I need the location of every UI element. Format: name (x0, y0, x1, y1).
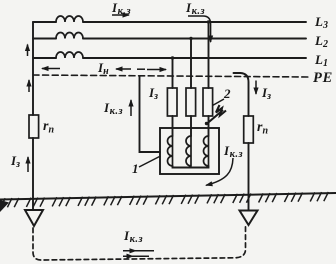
neutral vertical conductor (star point to earth) (32, 22, 34, 210)
pointer line of label 1 (139, 156, 161, 167)
earth electrode left (25, 210, 43, 226)
junction node fault point (205, 122, 208, 125)
svg-text:Iз: Iз (10, 153, 20, 170)
resistor r_п (neutral earthing) (29, 115, 39, 138)
motor winding coil phase C (204, 136, 209, 166)
breakdown-to-case fault arrow (207, 105, 227, 124)
current arrow I_н left (segment 1) (42, 68, 60, 70)
tap from L2 (phase wire to fuse F2) (190, 39, 192, 137)
svg-text:Iз: Iз (148, 85, 158, 102)
current arrow I_к.з through earth (lower) (123, 255, 149, 257)
svg-text:Iк.з: Iк.з (185, 0, 205, 17)
svg-text:Iк.з: Iк.з (123, 228, 143, 245)
tap from PE to repeated earthing (right) (234, 73, 249, 211)
phase line L2 (33, 38, 306, 40)
motor winding coil phase B (186, 136, 191, 166)
junction node L1/tap (171, 56, 174, 59)
current arrow I_з up neutral conductor (lower) (27, 157, 29, 172)
svg-text:2: 2 (223, 86, 231, 101)
junction node L2/tap (189, 37, 192, 40)
transformer winding coil on L2 (56, 33, 83, 39)
resistor r_п (repeated earthing) (244, 116, 254, 143)
earth electrode right (240, 211, 258, 226)
svg-text:L1: L1 (314, 52, 328, 69)
pointer line of label 2 (213, 99, 225, 106)
tap from L3 (phase wire to fuse F3) (208, 22, 210, 136)
star point bus of motor windings (173, 166, 209, 168)
tap from L1 (phase wire to fuse F1) (172, 58, 174, 136)
svg-text:1: 1 (132, 161, 139, 176)
wire PE drop to equipment case (140, 76, 161, 152)
equipment case (motor, item 1) (160, 128, 219, 174)
current arrow I_н left (segment 2) (116, 68, 131, 70)
current arrow I_з up neutral conductor (middle) (28, 80, 30, 92)
svg-text:PE: PE (313, 70, 333, 86)
junction node L3/tap (207, 20, 210, 23)
dash of I_н annotation (137, 68, 145, 70)
current arrow I_к.з along L3 (112, 14, 129, 16)
svg-text:Iз: Iз (261, 85, 271, 102)
left edge scan artifact (0, 200, 9, 212)
phase line L1 (33, 57, 306, 59)
current arrow I_к.з up the PE wire (130, 100, 132, 116)
ground surface line (0, 193, 336, 200)
svg-text:L3: L3 (314, 14, 328, 31)
dashed earth-return path between electrodes (33, 227, 246, 261)
svg-text:L2: L2 (314, 33, 328, 50)
ground hatching (1, 192, 329, 207)
transformer winding coil on L1 (56, 52, 83, 58)
svg-text:Iк.з: Iк.з (111, 0, 131, 17)
current arrow I_к.з through earth (upper) (123, 250, 154, 252)
svg-text:rп: rп (43, 119, 54, 136)
fuse F3 (203, 88, 213, 116)
fuse F1 (167, 88, 177, 116)
fuse F2 (186, 88, 196, 116)
transformer winding coil on L3 (56, 16, 83, 22)
PE / neutral protective conductor (dashed) (33, 75, 308, 77)
current arrow right toward equipment (147, 69, 166, 71)
svg-text:Iк.з: Iк.з (223, 143, 243, 160)
motor winding coil phase A (168, 136, 173, 166)
svg-text:Iн: Iн (97, 60, 109, 77)
current arrow I_к.з from case to earth (arc) (206, 158, 233, 185)
phase line L3 (33, 21, 306, 23)
current arrow I_к.з down the faulted phase tap (188, 16, 211, 42)
svg-text:Iк.з: Iк.з (103, 100, 123, 117)
current arrow I_з down repeated earthing (255, 81, 257, 95)
svg-text:rп: rп (257, 120, 268, 137)
current arrow I_з up neutral conductor (upper) (27, 45, 29, 57)
